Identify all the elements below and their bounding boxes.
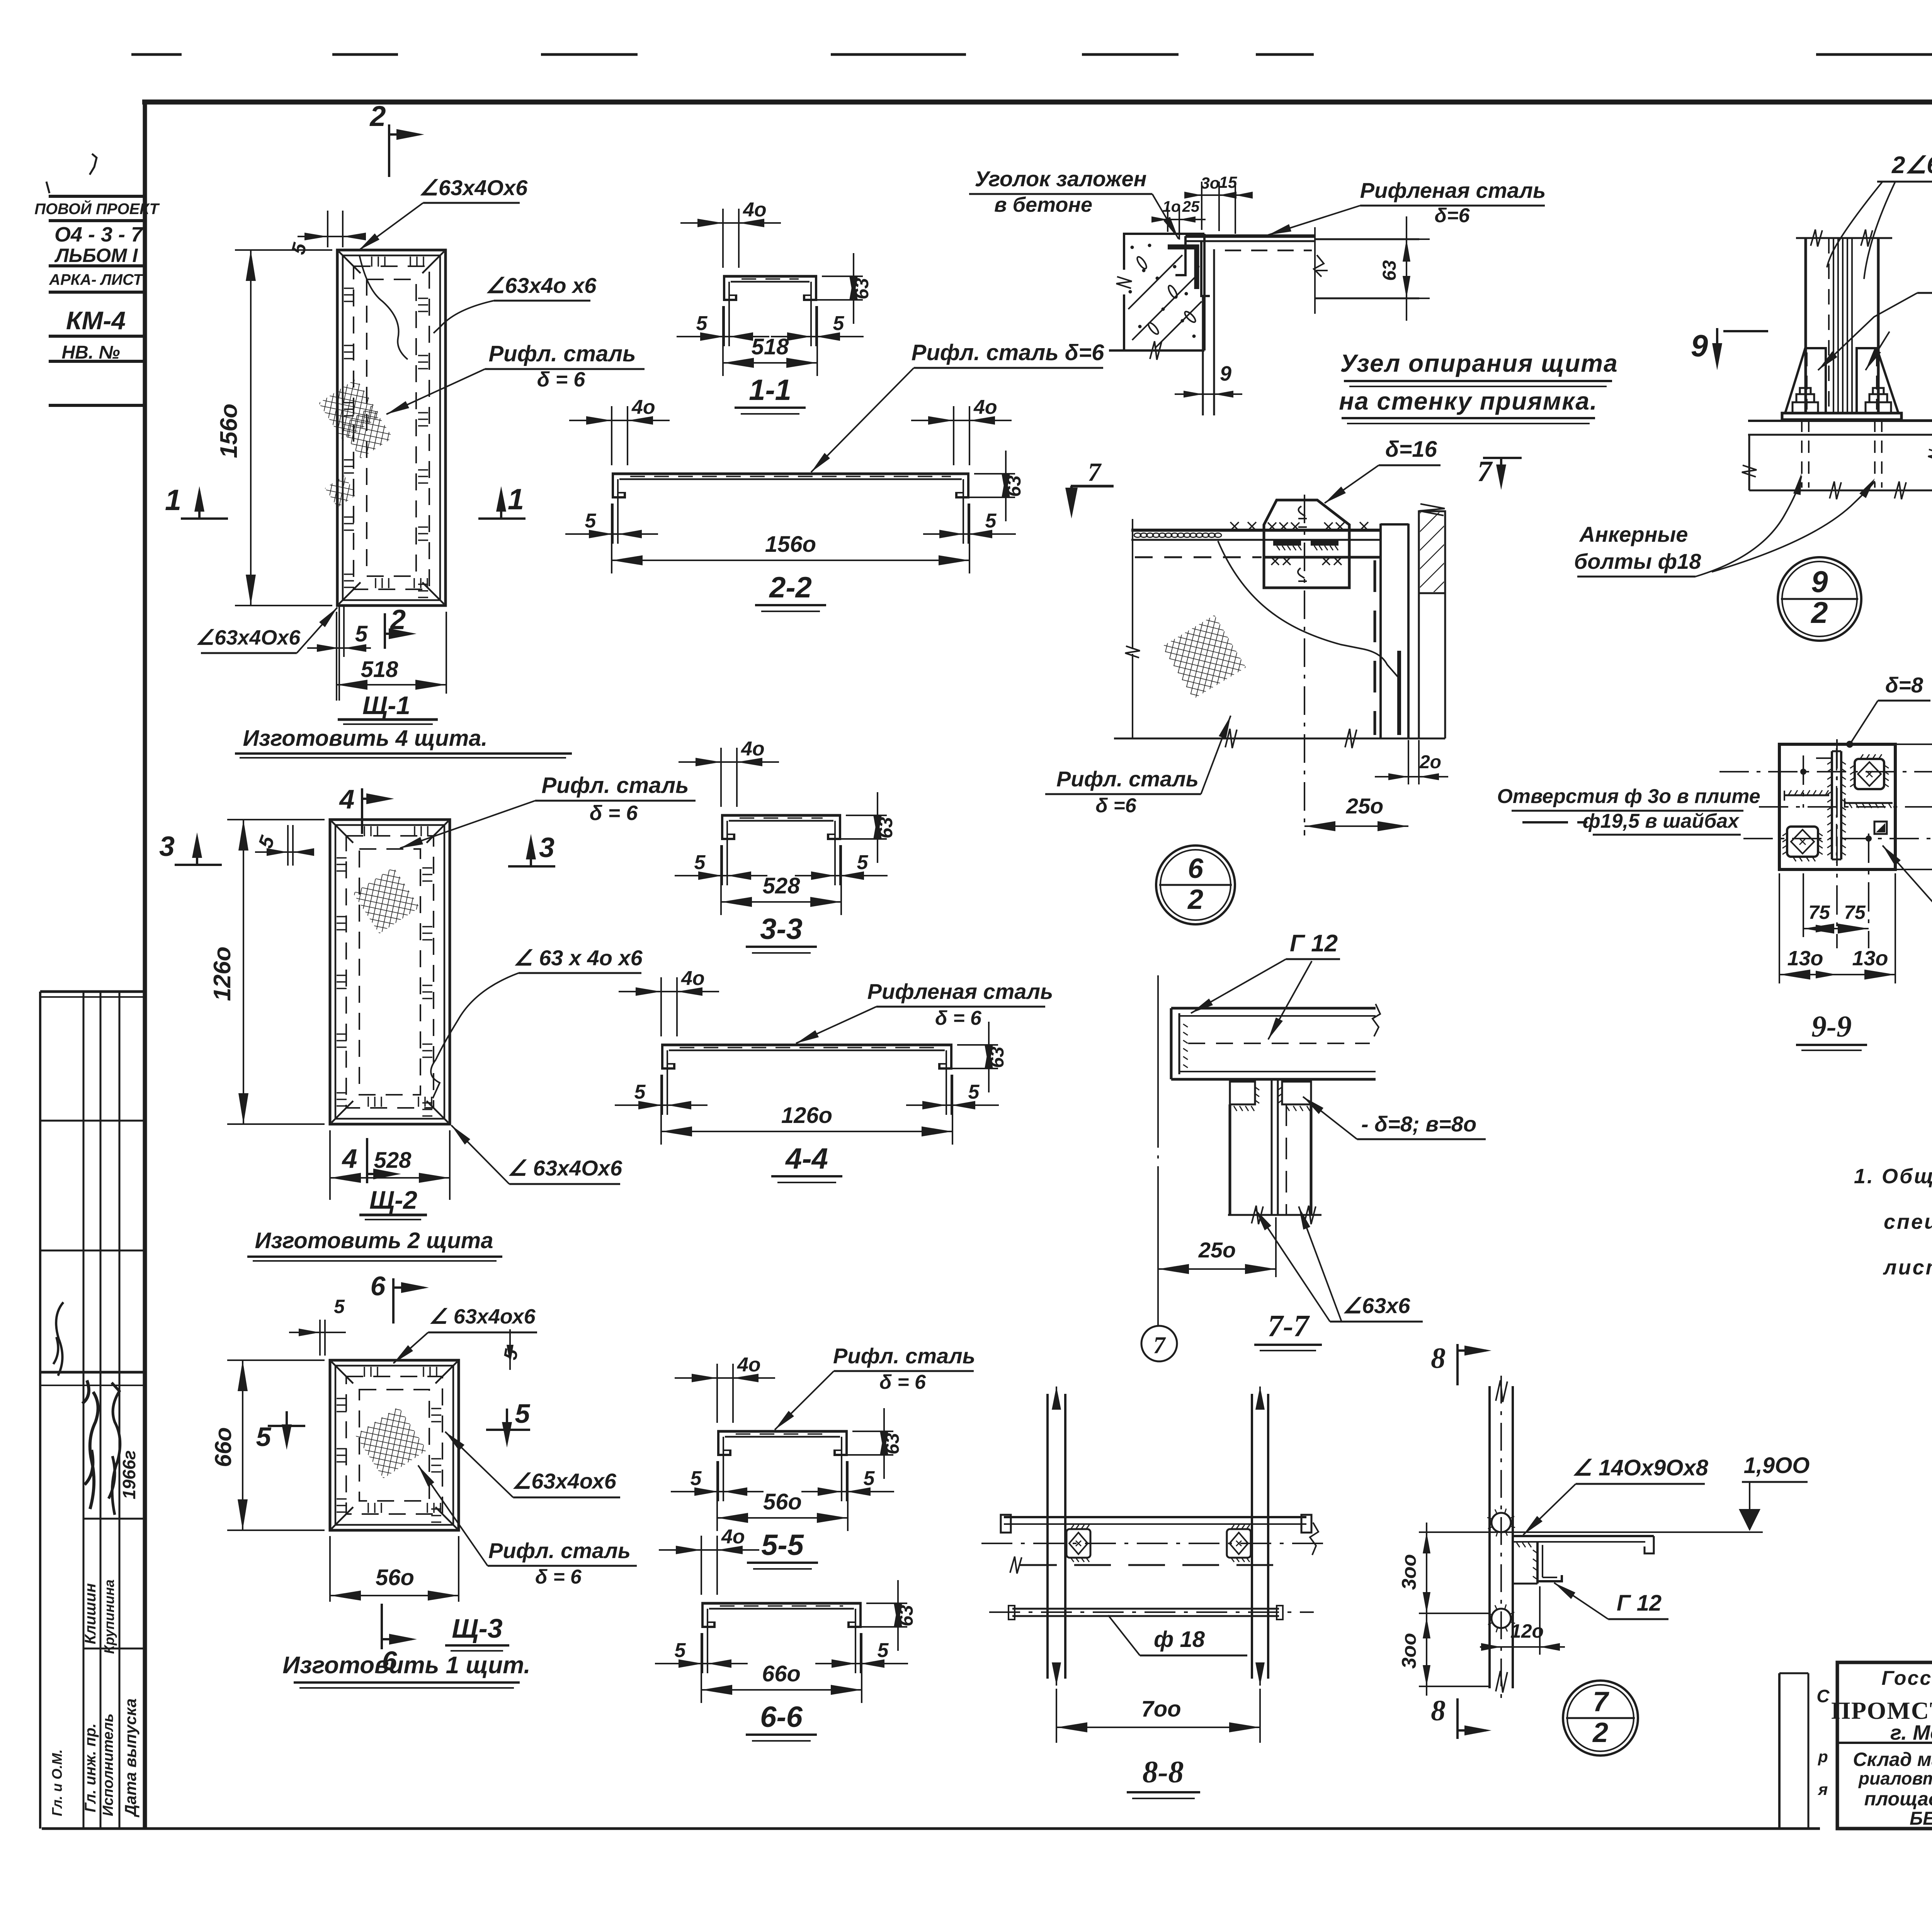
svg-text:7: 7 [1477, 455, 1493, 488]
svg-text:63: 63 [1003, 475, 1025, 497]
svg-text:δ = 6: δ = 6 [535, 1566, 582, 1588]
corner detail embedded angle [1168, 247, 1197, 289]
svg-text:Уголок заложен: Уголок заложен [975, 167, 1147, 191]
svg-text:4: 4 [339, 784, 355, 814]
svg-text:∠63х4ох6: ∠63х4ох6 [512, 1469, 617, 1493]
detail 6-2 weld x marks on plate [1230, 522, 1239, 531]
detail 9-2 column top break [1796, 237, 1892, 239]
detail 7-7 connection plates b=80 [1230, 1082, 1255, 1104]
svg-text:Рифл. сталь: Рифл. сталь [488, 1538, 631, 1563]
detail 8-8 left rail [1046, 1394, 1049, 1679]
svg-text:∠63х4о х6: ∠63х4о х6 [486, 273, 597, 298]
svg-text:∠ 63 х 4о х6: ∠ 63 х 4о х6 [514, 946, 643, 970]
bracket detail post [1488, 1386, 1491, 1688]
Щ-1 section mark 2 top [388, 124, 390, 177]
svg-text:13о: 13о [1787, 947, 1823, 970]
svg-text:5: 5 [694, 851, 706, 874]
section 4-4 profile [661, 1044, 952, 1046]
detail 6-2 wall hatched section [1419, 511, 1445, 593]
Щ-2 section mark 3 right [508, 865, 555, 868]
detail 7-7 section line and bubble 7 [1157, 975, 1159, 1132]
section 2-2 dim 40 [611, 406, 612, 465]
bracket detail bubble 7-2 [1563, 1681, 1638, 1756]
svg-text:63: 63 [986, 1046, 1008, 1068]
section 2-2 overall width dim 156о [611, 504, 612, 573]
detail 6-2 bubble [1156, 846, 1235, 924]
svg-text:ПОВОЙ ПРОЕКТ: ПОВОЙ ПРОЕКТ [34, 199, 160, 218]
corner detail concrete speckles [1131, 246, 1134, 249]
svg-text:Рифл. сталь: Рифл. сталь [1056, 767, 1199, 791]
panel Щ-2 corner chamfers [332, 821, 353, 843]
svg-text:δ = 6: δ = 6 [590, 801, 638, 825]
section 4-4 overall width dim 126о [660, 1075, 662, 1145]
svg-text:Крупинина: Крупинина [101, 1579, 117, 1654]
Щ-3 dim 5 top [319, 1320, 321, 1356]
svg-text:7: 7 [1153, 1332, 1167, 1359]
svg-text:ПРОМСТРОЙПРОЕКТ: ПРОМСТРОЙПРОЕКТ [1831, 1697, 1932, 1724]
svg-text:7: 7 [1088, 457, 1102, 487]
svg-text:3оо: 3оо [1398, 1554, 1420, 1590]
section 2-2 profile [612, 473, 969, 475]
svg-text:Исполнитель: Исполнитель [100, 1713, 116, 1816]
stamp lower table verticals [39, 992, 41, 1829]
scan artifact dashes top edge [131, 53, 182, 56]
section 5-5 dim 40 [716, 1364, 718, 1423]
svg-text:АРКА- ЛИСТ: АРКА- ЛИСТ [49, 271, 144, 288]
detail 9-2 foundation [1748, 420, 1932, 422]
svg-text:56о: 56о [763, 1489, 802, 1514]
svg-text:Щ-3: Щ-3 [452, 1613, 503, 1643]
svg-text:∠63х4Ох6: ∠63х4Ох6 [419, 175, 528, 200]
section 2-2 dim 5 left [612, 504, 614, 544]
section 3-3 dim 40 [720, 748, 722, 807]
svg-text:528: 528 [374, 1148, 412, 1173]
bracket detail angle vertical leg [1514, 1583, 1537, 1585]
title block main outline [1837, 1662, 1932, 1829]
section 3-3 overall width dim 528 [720, 845, 722, 915]
stamp signature scribbles [82, 1380, 98, 1509]
svg-text:1: 1 [165, 484, 181, 517]
section 1-1 dim 40 [722, 209, 724, 268]
svg-text:2о: 2о [1419, 752, 1441, 772]
panel Щ-1 hidden angle lines [354, 266, 429, 589]
section 6-6 dim 5 right [860, 1633, 861, 1673]
bracket detail channel Г12 [1536, 1542, 1539, 1584]
bracket detail level line [1419, 1531, 1763, 1533]
Щ-1 section mark 1 right [478, 517, 526, 520]
detail 9-9 centerlines [1719, 771, 1932, 772]
svg-text:Узел опирания щита: Узел опирания щита [1340, 349, 1618, 377]
section mark 9 left [1723, 330, 1768, 332]
svg-text:8: 8 [1431, 1342, 1446, 1375]
svg-text:∠63х6: ∠63х6 [1343, 1293, 1411, 1318]
svg-text:5: 5 [355, 621, 368, 646]
title block left box divider [1837, 1742, 1932, 1744]
svg-text:1-1: 1-1 [749, 374, 791, 407]
Щ-2 section mark 4 bottom [366, 1138, 368, 1183]
section 6-6 profile [701, 1602, 862, 1605]
svg-text:листе КМ-1.: листе КМ-1. [1883, 1256, 1932, 1279]
svg-text:2: 2 [1187, 884, 1203, 915]
Щ-2 dim 5 top [287, 825, 289, 866]
section 4-4 dim 5 left [662, 1075, 663, 1115]
svg-text:δ=6: δ=6 [1434, 204, 1470, 227]
section 5-5 dim 5 right [846, 1461, 847, 1501]
detail 9-2 anchor bolts hidden [1801, 420, 1803, 488]
svg-text:я: я [1818, 1780, 1828, 1798]
svg-text:4о: 4о [743, 199, 767, 221]
bracket detail bolt rosettes [1492, 1513, 1511, 1532]
corner detail concrete block outline [1124, 234, 1168, 270]
svg-text:1. Общие примечания и: 1. Общие примечания и техническую [1854, 1165, 1932, 1188]
svg-text:ф19,5 в шайбах: ф19,5 в шайбах [1583, 810, 1740, 832]
svg-text:5: 5 [634, 1081, 646, 1103]
Щ-1 dim 1560 [235, 249, 332, 251]
detail 6-2 left extension line [1132, 519, 1133, 649]
svg-text:66о: 66о [210, 1427, 236, 1467]
svg-text:8-8: 8-8 [1143, 1755, 1184, 1789]
svg-text:Изготовить 1 щит.: Изготовить 1 щит. [282, 1652, 530, 1679]
svg-text:9: 9 [1220, 362, 1231, 385]
Щ-3 section mark 5 right [486, 1429, 530, 1431]
svg-text:БЕЗ РАМПЫ: БЕЗ РАМПЫ [1910, 1808, 1932, 1829]
svg-text:1966г: 1966г [119, 1450, 139, 1499]
svg-text:4о: 4о [737, 1354, 761, 1376]
svg-text:1о: 1о [1163, 198, 1181, 215]
svg-text:156о: 156о [765, 532, 816, 557]
title block narrow left column [1778, 1673, 1781, 1829]
svg-text:63: 63 [851, 278, 872, 299]
svg-text:5: 5 [878, 1639, 889, 1662]
svg-text:25о: 25о [1198, 1238, 1236, 1262]
section 1-1 dim 5 left [723, 306, 725, 346]
svg-text:5: 5 [696, 312, 708, 335]
svg-text:3-3: 3-3 [760, 913, 803, 946]
svg-text:δ = 6: δ = 6 [537, 368, 586, 391]
section 4-4 dim 40 [660, 977, 662, 1036]
detail 9-2 anchor bolt nuts [1793, 402, 1818, 413]
corner detail dim 9 below [1202, 405, 1204, 415]
Щ-1 dim 5 bottom [338, 606, 340, 701]
svg-text:5: 5 [968, 1081, 980, 1103]
svg-text:болты ф18: болты ф18 [1574, 549, 1702, 573]
panel Щ-2 weld ticks [337, 857, 347, 859]
svg-text:6-6: 6-6 [760, 1701, 803, 1734]
corner detail dims 10 25 [1167, 205, 1168, 232]
svg-text:Рифл. сталь: Рифл. сталь [833, 1344, 975, 1368]
Щ-3 section mark 6 top [392, 1278, 395, 1324]
svg-text:7: 7 [1593, 1686, 1609, 1717]
section 3-3 dim 5 right [839, 845, 841, 885]
section 1-1 profile [723, 275, 817, 278]
detail 6-2 gusset weld marks [1268, 522, 1276, 531]
svg-text:66о: 66о [762, 1661, 801, 1686]
svg-text:2: 2 [1592, 1717, 1608, 1748]
svg-text:5-5: 5-5 [761, 1529, 804, 1562]
panel Щ-3 checkered-steel hatch [347, 1399, 434, 1486]
Щ-1 dim 518 [336, 612, 337, 701]
svg-text:ЛЬБОМ I: ЛЬБОМ I [54, 245, 138, 266]
detail 9-2 bubble [1778, 557, 1861, 641]
svg-text:Дата выпуска: Дата выпуска [121, 1698, 139, 1817]
svg-text:13о: 13о [1852, 947, 1888, 970]
svg-text:3: 3 [539, 832, 554, 863]
svg-text:риаловтарного хранения: риаловтарного хранения [1858, 1768, 1932, 1788]
detail 9-9 washer top right [1855, 759, 1884, 789]
svg-text:2-2: 2-2 [769, 571, 812, 604]
Щ-2 dim 528 [329, 1130, 331, 1200]
svg-text:Анкерные: Анкерные [1579, 522, 1688, 546]
svg-text:3: 3 [159, 831, 175, 862]
panel Щ-3 corner chamfers [332, 1362, 353, 1383]
svg-text:9: 9 [1811, 565, 1828, 599]
section 4-4 dim 63 [957, 1044, 998, 1046]
detail 9-9 weld seam right [1845, 802, 1893, 804]
detail 6-2 freehand boundary curve [1218, 541, 1398, 677]
section 6-6 dim 5 left [702, 1633, 703, 1673]
svg-text:5: 5 [857, 851, 869, 874]
section 1-1 dim 63 [822, 276, 863, 277]
section 3-3 dim 63 [846, 815, 887, 816]
svg-text:9-9: 9-9 [1811, 1009, 1852, 1043]
detail 8-8 dim 700 [1056, 1689, 1057, 1743]
detail 9-2 gusset left [1785, 348, 1826, 413]
svg-text:2: 2 [369, 100, 386, 132]
Щ-3 section mark 6 bottom [381, 1604, 383, 1649]
detail 6-2 hidden line [1135, 556, 1262, 558]
detail 8-8 washer left [1066, 1529, 1090, 1558]
Щ-3 dim 560 [329, 1536, 331, 1602]
detail 6-2 bottom break line [1114, 738, 1445, 740]
svg-text:р: р [1818, 1747, 1828, 1766]
svg-text:Щ-2: Щ-2 [369, 1186, 417, 1214]
sheet border left [143, 102, 147, 1829]
panel Щ-1 corner chamfers [339, 252, 361, 273]
section 3-3 dim 5 left [721, 845, 723, 885]
svg-text:∠ 63х4Ох6: ∠ 63х4Ох6 [508, 1156, 622, 1180]
panel Щ-3 weld ticks [337, 1398, 347, 1399]
svg-text:4о: 4о [973, 396, 997, 419]
Щ-3 dim 660 [227, 1359, 325, 1361]
svg-text:156о: 156о [216, 403, 242, 458]
detail 8-8 upper strap [1004, 1516, 1306, 1518]
svg-text:О4 - 3 - 7: О4 - 3 - 7 [54, 223, 144, 246]
svg-text:4о: 4о [631, 396, 655, 419]
svg-text:5: 5 [334, 1296, 345, 1317]
svg-text:75: 75 [1808, 902, 1830, 923]
svg-text:площадью 432 м²: площадью 432 м² [1864, 1788, 1932, 1810]
svg-text:25о: 25о [1346, 794, 1384, 818]
detail 8-8 lower rod [1012, 1608, 1279, 1610]
stamp lower table horizontals [40, 990, 145, 993]
svg-text:518: 518 [361, 657, 399, 682]
svg-text:Рифл. сталь δ=6: Рифл. сталь δ=6 [912, 340, 1104, 365]
svg-text:75: 75 [1844, 902, 1866, 923]
svg-text:25: 25 [1182, 198, 1200, 215]
svg-text:6: 6 [1188, 853, 1204, 884]
svg-text:С: С [1816, 1686, 1830, 1706]
svg-text:8: 8 [1431, 1694, 1446, 1727]
svg-text:12о: 12о [1510, 1620, 1544, 1642]
section 1-1 dim 5 right [815, 306, 817, 346]
svg-text:56о: 56о [376, 1565, 414, 1590]
svg-text:δ=16: δ=16 [1385, 437, 1437, 462]
detail 6-2 gusset plate [1264, 500, 1349, 588]
corner detail wall below [1202, 296, 1204, 415]
svg-text:Гл. инж. пр.: Гл. инж. пр. [82, 1723, 99, 1812]
section 5-5 dim 63 [852, 1431, 893, 1432]
svg-text:126о: 126о [209, 946, 236, 1001]
detail 8-8 right rail [1251, 1394, 1253, 1679]
scan artifact marks top-left [90, 154, 97, 175]
panel Щ-2 outer frame [330, 820, 450, 1124]
section 5-5 dim 5 left [718, 1461, 719, 1501]
panel Щ-3 outer frame [330, 1360, 459, 1530]
svg-text:∠63х4Ох6: ∠63х4Ох6 [196, 626, 301, 649]
detail 6-2 wall recess lines [1379, 524, 1382, 738]
svg-text:5: 5 [256, 1422, 272, 1452]
svg-text:δ =6: δ =6 [1095, 794, 1137, 817]
panel Щ-1 outer frame [337, 250, 446, 606]
detail 9-9 weld seam left [1784, 794, 1829, 796]
detail 9-9 dims bottom 130 130 [1779, 873, 1780, 983]
svg-text:4о: 4о [741, 738, 765, 760]
detail 9-9 washer bottom left [1787, 827, 1818, 857]
svg-text:3о: 3о [1201, 174, 1219, 192]
svg-text:5: 5 [515, 1398, 531, 1429]
svg-text:Рифленая сталь: Рифленая сталь [867, 979, 1053, 1004]
svg-text:6: 6 [371, 1271, 386, 1301]
section 6-6 overall width dim 66о [701, 1633, 702, 1703]
svg-text:5: 5 [675, 1639, 686, 1662]
detail 6-2 panel top plate [1131, 529, 1381, 532]
svg-text:5: 5 [864, 1467, 875, 1490]
svg-text:7оо: 7оо [1141, 1696, 1181, 1722]
svg-text:Изготовить 2 щита: Изготовить 2 щита [255, 1228, 493, 1253]
detail 6-2 checkered patch [1151, 604, 1257, 709]
svg-text:НВ. №: НВ. № [61, 342, 120, 363]
detail 9-9 small marked square [1874, 822, 1887, 834]
detail 6-2 hidden lip line [1374, 560, 1376, 735]
detail 9-9 dims bottom 75 75 [1803, 873, 1804, 937]
svg-text:5: 5 [585, 510, 597, 532]
svg-text:4: 4 [342, 1143, 357, 1174]
corner detail panel lip over angle [1175, 236, 1185, 275]
svg-text:δ = 6: δ = 6 [935, 1007, 982, 1029]
svg-text:2∠63х6: 2∠63х6 [1891, 152, 1932, 179]
detail 6-2 checker texture row [1134, 533, 1141, 538]
panel Щ-2 hidden angle lines [346, 836, 434, 1108]
svg-text:г. Москва- 1966г.: г. Москва- 1966г. [1890, 1721, 1932, 1744]
panel Щ-1 checkered-steel hatch [312, 372, 388, 447]
svg-text:∠ 63х4ох6: ∠ 63х4ох6 [429, 1305, 536, 1328]
section 5-5 profile [717, 1430, 848, 1433]
svg-text:Щ-1: Щ-1 [362, 691, 410, 720]
corner detail top dims 30 15 [1201, 182, 1202, 230]
svg-text:528: 528 [763, 873, 801, 898]
svg-text:∠ 14Ох9Ох8: ∠ 14Ох9Ох8 [1572, 1455, 1709, 1480]
corner detail dim 63 right [1406, 216, 1407, 321]
svg-text:Рифленая сталь: Рифленая сталь [1360, 178, 1546, 202]
Щ-2 section mark 4 top [361, 788, 363, 834]
detail 9-9 angle strip [1831, 751, 1833, 859]
detail 7-7 beam channel [1171, 1007, 1376, 1010]
svg-text:63: 63 [881, 1433, 903, 1455]
sheet border bottom [42, 1827, 1779, 1830]
svg-text:5: 5 [690, 1467, 702, 1490]
svg-text:Рифл. сталь: Рифл. сталь [541, 773, 689, 798]
svg-text:7-7: 7-7 [1268, 1309, 1310, 1343]
section 5-5 overall width dim 56о [716, 1461, 718, 1531]
svg-text:- δ=8; в=8о: - δ=8; в=8о [1361, 1112, 1476, 1136]
Щ-1 dim 5 top [327, 211, 328, 247]
sheet border top [142, 100, 1932, 105]
svg-text:15: 15 [1219, 173, 1237, 191]
bracket detail ledge angle [1513, 1535, 1654, 1537]
svg-text:Г 12: Г 12 [1290, 930, 1338, 957]
svg-text:4о: 4о [721, 1526, 745, 1548]
svg-text:126о: 126о [781, 1103, 832, 1128]
detail 9-2 base plate [1782, 413, 1901, 420]
Щ-2 dim 1260 [227, 819, 325, 820]
svg-text:5: 5 [833, 312, 845, 335]
section 2-2 dim 63 [974, 473, 1015, 475]
svg-text:ф 18: ф 18 [1154, 1627, 1205, 1652]
svg-text:5: 5 [985, 510, 997, 532]
section 2-2 dim 5 right [968, 504, 969, 544]
detail 8-8 washer right [1227, 1529, 1251, 1558]
corner detail panel plate [1185, 235, 1315, 238]
Щ-3 section mark 5 left [268, 1425, 305, 1427]
svg-text:3оо: 3оо [1398, 1633, 1420, 1669]
panel Щ-2 checkered-steel hatch [346, 860, 427, 941]
svg-text:63: 63 [895, 1605, 917, 1626]
svg-text:2: 2 [1810, 595, 1828, 629]
section 6-6 dim 40 [701, 1536, 702, 1595]
stamp upper box lines [49, 195, 145, 198]
svg-text:2: 2 [389, 604, 406, 635]
detail 6-2 gusset centerline [1304, 495, 1305, 835]
svg-text:63: 63 [1379, 260, 1400, 281]
corner detail panel edge extension right [1314, 227, 1316, 314]
svg-text:КМ-4: КМ-4 [66, 306, 126, 335]
panel Щ-1 weld ticks [344, 288, 354, 289]
corner detail concrete hatch lines [1128, 255, 1182, 309]
svg-text:δ=8: δ=8 [1885, 673, 1923, 697]
svg-text:Гл. и О.М.: Гл. и О.М. [49, 1749, 65, 1816]
svg-text:63: 63 [875, 817, 896, 839]
svg-text:δ = 6: δ = 6 [879, 1371, 926, 1393]
svg-text:1: 1 [508, 483, 524, 516]
svg-text:4-4: 4-4 [785, 1142, 828, 1175]
section 6-6 dim 63 [866, 1603, 907, 1604]
svg-text:1,9ОО: 1,9ОО [1744, 1453, 1810, 1478]
section 3-3 profile [721, 814, 841, 817]
detail 9-9 dims right 130 130 [1895, 743, 1932, 745]
detail 9-2 gusset right [1857, 348, 1898, 413]
section 4-4 dim 5 right [951, 1075, 952, 1115]
svg-text:Клишин: Клишин [82, 1583, 99, 1644]
Щ-2 section mark 3 left [175, 864, 222, 866]
svg-text:в бетоне: в бетоне [994, 193, 1092, 216]
panel Щ-3 hidden angle lines [346, 1376, 442, 1514]
svg-text:Склад масел и химмате-: Склад масел и химмате- [1853, 1749, 1932, 1770]
svg-text:4о: 4о [681, 967, 705, 990]
bracket detail dims 300 300 [1426, 1523, 1427, 1696]
svg-text:Госстрой СССР: Госстрой СССР [1881, 1667, 1932, 1689]
detail 7-7 column shafts [1229, 1104, 1231, 1215]
detail 6-2 lip flange [1397, 651, 1401, 735]
